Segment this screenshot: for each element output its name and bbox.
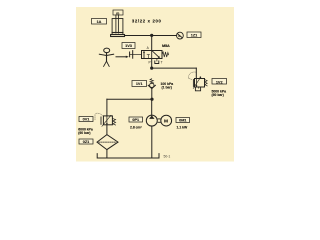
svg-text:1V3: 1V3 [125, 44, 132, 48]
check valve 1V1 spring [150, 79, 153, 84]
svg-text:(60 bar): (60 bar) [78, 131, 90, 135]
relief 0V1 flow arrowhead [106, 123, 108, 125]
cylinder base block [111, 35, 125, 37]
svg-text:0Z1: 0Z1 [83, 140, 90, 144]
filter 0Z1 diamond [97, 135, 118, 150]
svg-text:T: T [161, 61, 163, 65]
relief 1V2 adjust arrow tip [200, 76, 202, 78]
relief valve 0V1 square [103, 116, 112, 125]
valve 1V3 left cell arrowhead [143, 51, 145, 53]
svg-text:32/22 x 200: 32/22 x 200 [132, 18, 162, 23]
pressure gauge 1Z1 [177, 32, 184, 39]
wire down to valve [151, 36, 153, 51]
svg-text:M5A: M5A [162, 44, 170, 48]
check valve seat [148, 85, 155, 88]
junction node 2 [150, 98, 153, 101]
wire down into relief 1V2 [195, 68, 197, 78]
relief 1V2 flow arrowhead [196, 85, 198, 87]
label 0M1 [176, 118, 190, 123]
label 0Z1 [79, 139, 93, 144]
wire cylinder to gauge [125, 35, 177, 37]
svg-text:(50 bar): (50 bar) [212, 93, 224, 97]
wire down to relief 0V1 [106, 99, 108, 116]
pushbutton actuator [129, 52, 131, 57]
man arrow head [126, 56, 129, 58]
coupling [158, 118, 160, 120]
relief 1V2 drain tank [198, 87, 200, 88]
label 1V2 [212, 79, 227, 85]
rod [115, 15, 117, 33]
wire check valve to junction2 [151, 89, 153, 98]
label 1A [92, 19, 107, 25]
valve 1V3 body [142, 51, 163, 59]
svg-text:1A: 1A [97, 20, 102, 24]
pump triangle [149, 115, 154, 119]
svg-text:1Z1: 1Z1 [191, 34, 198, 38]
filled details [106, 34, 201, 125]
relief valve 1V2 pilot dashed [188, 72, 196, 80]
label 1V3 [122, 43, 135, 49]
label 1V1 [132, 81, 147, 87]
gauge needle head [178, 34, 181, 37]
wire pump down to tank [151, 126, 153, 158]
motor 0M1 [161, 115, 172, 126]
svg-text:(1 bar): (1 bar) [162, 85, 172, 89]
cylinder 1A body [112, 19, 123, 35]
wire junction2 left [107, 98, 152, 100]
relief valve 0V1 pilot dashed [95, 113, 103, 120]
svg-text:0V1: 0V1 [83, 118, 90, 122]
arrow man to button [116, 56, 126, 58]
wire valve to junction 1 [151, 59, 153, 69]
svg-text:M: M [164, 118, 168, 124]
canvas background [76, 7, 234, 162]
wire junction2 down to pump [151, 99, 153, 115]
hydraulic circuit schematic, FluidSIM style [0, 0, 320, 180]
spring right of valve [162, 52, 169, 57]
relief 0V1 spring [112, 118, 115, 125]
svg-text:1.1 kW: 1.1 kW [177, 126, 189, 130]
wire junction1 right [152, 67, 197, 69]
relief 0V1 adjust arrow tip [110, 115, 112, 117]
svg-text:1V1: 1V1 [136, 82, 143, 86]
right cell diagonal [152, 51, 158, 57]
label 0V1 [79, 117, 93, 122]
svg-text:0M1: 0M1 [179, 119, 186, 123]
svg-text:m: m [116, 11, 119, 15]
svg-text:P: P [149, 60, 151, 64]
label 1Z1 [187, 32, 201, 38]
valve T port tank [156, 59, 158, 62]
svg-text:50-1: 50-1 [164, 154, 171, 158]
piston line [112, 32, 123, 34]
valve 1V3 right cell arrowhead [158, 56, 160, 58]
load mass m on rod [113, 10, 123, 15]
tank [97, 154, 159, 158]
svg-text:1V2: 1V2 [216, 80, 223, 84]
label 0P1 [129, 117, 143, 122]
label boxes [79, 19, 227, 145]
junction node at cylinder port line [150, 34, 153, 37]
wire relief 0V1 to filter [106, 125, 108, 135]
relief valve 1V2 square [195, 79, 205, 88]
wire filter to tank [106, 150, 108, 158]
junction node 1 [150, 67, 153, 70]
svg-text:2.8 cm³: 2.8 cm³ [130, 126, 143, 130]
svg-text:0P1: 0P1 [132, 118, 139, 122]
relief 1V2 spring [205, 79, 208, 86]
left cell arrow up [143, 52, 145, 57]
left cell blocked stub [147, 55, 149, 59]
check valve ball [150, 83, 154, 87]
stick man [104, 48, 110, 53]
pump 0P1 [146, 115, 157, 126]
